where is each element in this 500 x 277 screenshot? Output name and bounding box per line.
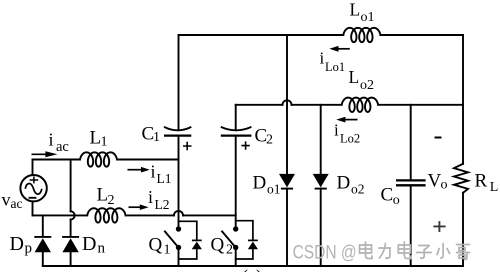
wire Lo2 row left (node B to hop)	[236, 104, 283, 106]
wire top rail right segment (Lo1 to output node)	[380, 34, 463, 36]
svg-text:Lo1: Lo1	[325, 60, 345, 74]
svg-text:i: i	[320, 49, 325, 68]
wire Do2 branch lower to bottom rail	[320, 189, 322, 266]
diode Do1	[279, 174, 295, 188]
svg-text:L: L	[490, 180, 499, 195]
wire C1 to Q1 top contact	[178, 136, 180, 229]
wire Q2 body diode loop top	[236, 221, 253, 241]
wire bottom rail	[43, 265, 463, 267]
svg-text:1: 1	[101, 134, 108, 149]
svg-text:CSDN @: CSDN @	[293, 242, 357, 264]
inductor L1	[80, 152, 117, 166]
watermark glyph dian	[360, 242, 373, 259]
svg-text:L: L	[90, 127, 102, 148]
wire Dp branch	[42, 215, 44, 236]
wire vac minus lead	[32, 202, 34, 216]
svg-text:ac: ac	[56, 139, 69, 155]
inductor L2	[87, 208, 125, 222]
svg-text:o: o	[393, 193, 400, 208]
svg-text:1: 1	[164, 243, 171, 258]
wire top rail left segment (node X1 to Lo1)	[179, 34, 344, 36]
watermark glyph ge	[457, 245, 470, 260]
switch Q2 blade	[222, 231, 236, 248]
svg-text:n: n	[98, 240, 106, 256]
wire hop to node B (C2 bottom)	[183, 214, 236, 216]
capacitor C2 curved plate	[221, 127, 252, 130]
wire Q1 body diode loop bottom	[179, 249, 197, 259]
capacitor Co top plate	[396, 179, 426, 181]
svg-text:L2: L2	[155, 197, 170, 212]
wire vac plus lead	[32, 160, 34, 176]
svg-text:p: p	[25, 241, 33, 257]
wire Q2 body diode loop bottom	[236, 249, 253, 259]
svg-text:D: D	[253, 173, 267, 194]
label Vo plus	[433, 221, 445, 232]
capacitor C2 straight plate	[221, 134, 252, 136]
watermark glyph dian2	[398, 242, 411, 259]
ac source vac circle	[20, 175, 46, 201]
svg-text:i: i	[151, 162, 156, 182]
svg-text:R: R	[475, 170, 488, 191]
switch Q2 bottom contact dot	[233, 245, 238, 250]
switch Q1 bottom contact dot	[176, 245, 181, 250]
svg-text:2: 2	[108, 193, 115, 208]
current arrow i_L2	[129, 206, 143, 208]
current arrow i_L1	[128, 169, 144, 171]
current arrow i_Lo2	[345, 119, 358, 121]
wire Do1 branch lower to bottom rail	[286, 189, 288, 266]
ac source vac sine wave	[25, 183, 42, 194]
wire hop over Do1 branch	[283, 100, 292, 105]
svg-text:C: C	[381, 185, 394, 206]
wire vac top to L1	[33, 159, 81, 161]
svg-text:L1: L1	[157, 171, 172, 186]
svg-text:o2: o2	[360, 78, 374, 93]
svg-text:ac: ac	[11, 196, 23, 211]
diode Dn	[62, 236, 79, 238]
svg-text:D: D	[10, 233, 24, 255]
svg-text:L: L	[350, 0, 361, 20]
current arrow i_Lo1	[338, 48, 350, 50]
wire diode Dn to bottom rail	[70, 252, 72, 266]
wire Dn hop over vac bottom wire	[71, 211, 75, 219]
diode Dp	[34, 236, 51, 238]
wire Lo2 to output node	[378, 104, 463, 106]
svg-text:o1: o1	[361, 10, 375, 25]
wire hop to Lo2	[292, 104, 342, 106]
wire C2 branch top (from Lo2 row)	[235, 105, 237, 130]
svg-text:i: i	[49, 129, 54, 149]
switch Q1 body diode	[192, 239, 202, 241]
svg-text:Lo2: Lo2	[340, 131, 360, 145]
capacitor C1 straight plate	[164, 134, 191, 136]
label C2 plus	[241, 141, 249, 149]
svg-text:Q: Q	[149, 234, 163, 255]
wire L1 to node A (C1 top branch)	[117, 159, 179, 161]
svg-text:Q: Q	[211, 234, 225, 255]
watermark glyph zi	[417, 246, 432, 259]
wire Q1 body diode loop top	[179, 221, 197, 240]
wire diode Dp to bottom rail	[42, 252, 44, 266]
switch Q2 top contact dot	[233, 226, 238, 231]
svg-text:i: i	[334, 120, 339, 139]
wire Q2 bottom contact to bottom rail	[235, 248, 237, 267]
svg-text:o2: o2	[351, 182, 365, 197]
wire Co branch lower to bottom rail	[410, 185, 412, 266]
wire right output vertical lower	[462, 193, 464, 266]
capacitor C1 curved plate	[164, 127, 191, 130]
svg-text:o1: o1	[267, 182, 281, 197]
wire hop over C1 branch	[174, 211, 183, 216]
wire Q1 bottom contact to bottom rail	[178, 248, 180, 267]
label C1 plus	[183, 142, 192, 151]
current arrow i_ac	[32, 153, 50, 155]
svg-text:i: i	[148, 187, 153, 207]
label Vo minus	[435, 137, 442, 139]
svg-text:V: V	[428, 170, 442, 191]
wire C2 to Q2 top contact	[235, 136, 237, 229]
svg-text:2: 2	[266, 132, 273, 147]
svg-text:L: L	[349, 67, 360, 87]
ac source plus polarity mark	[30, 177, 39, 184]
svg-text:v: v	[2, 190, 11, 210]
inductor Lo2	[342, 98, 378, 112]
wire Do2 branch upper	[320, 105, 322, 174]
inductor Lo1	[343, 28, 380, 42]
wire Co branch upper	[410, 105, 412, 181]
ac source minus polarity mark	[29, 197, 37, 199]
svg-text:D: D	[82, 233, 96, 255]
wire Dn hop to diode Dn	[70, 220, 72, 237]
watermark glyph xiao	[437, 244, 450, 259]
watermark glyph li	[379, 244, 391, 259]
svg-text:(a): (a)	[242, 266, 262, 272]
wire L2 to hop	[126, 214, 174, 216]
wire Do1 branch upper (top rail to diode)	[286, 35, 288, 174]
wire right output vertical upper	[462, 35, 464, 164]
diode Do2	[313, 174, 329, 188]
wire Dn branch from node A row	[70, 160, 72, 212]
svg-text:1: 1	[153, 130, 160, 145]
svg-text:o: o	[441, 177, 448, 192]
svg-text:2: 2	[226, 243, 233, 258]
wire C1 branch top	[178, 35, 180, 130]
svg-text:D: D	[337, 173, 351, 194]
wire vac bottom to L2	[33, 214, 88, 216]
switch Q1 blade	[164, 231, 178, 248]
switch Q1 top contact dot	[176, 226, 181, 231]
switch Q2 body diode	[248, 239, 258, 241]
capacitor Co bottom plate	[396, 184, 426, 186]
resistor RL zigzag	[454, 164, 468, 193]
svg-text:L: L	[97, 184, 109, 205]
